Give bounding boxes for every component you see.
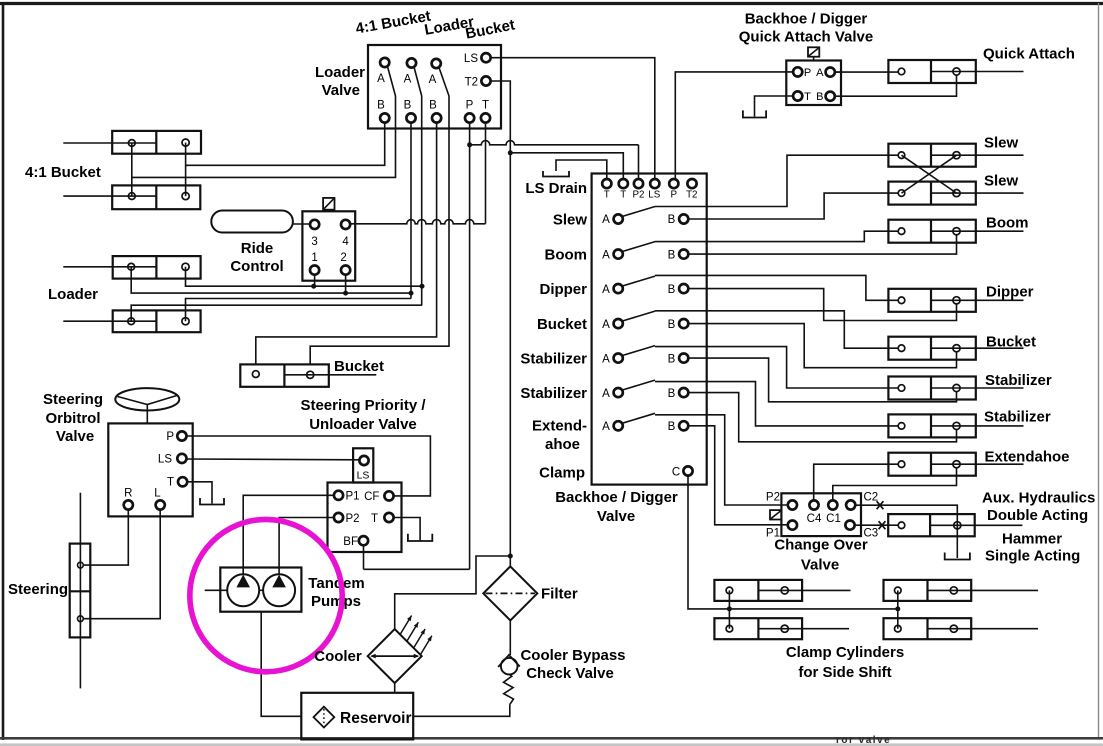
- svg-text:Hammer: Hammer: [1002, 531, 1062, 548]
- svg-text:Backhoe / Digger: Backhoe / Digger: [745, 11, 868, 28]
- svg-text:Single Acting: Single Acting: [985, 548, 1080, 565]
- svg-text:Valve: Valve: [322, 82, 360, 99]
- svg-text:P: P: [804, 67, 811, 79]
- svg-text:B: B: [377, 100, 385, 112]
- svg-text:A: A: [377, 73, 385, 85]
- svg-text:4: 4: [342, 236, 349, 248]
- svg-text:Steering: Steering: [43, 391, 103, 408]
- svg-text:B: B: [404, 100, 412, 112]
- svg-text:B: B: [668, 319, 676, 331]
- svg-text:Clamp Cylinders: Clamp Cylinders: [786, 644, 904, 661]
- svg-text:B: B: [668, 353, 676, 365]
- svg-text:Bucket: Bucket: [334, 358, 384, 375]
- svg-text:Stabilizer: Stabilizer: [984, 409, 1051, 426]
- svg-text:B: B: [668, 421, 676, 433]
- svg-text:B: B: [668, 284, 676, 296]
- svg-text:BF: BF: [343, 536, 358, 548]
- svg-text:Stabilizer: Stabilizer: [985, 372, 1052, 389]
- svg-text:Cooler: Cooler: [314, 648, 362, 665]
- svg-text:CF: CF: [364, 491, 379, 503]
- svg-text:B: B: [429, 100, 437, 112]
- svg-text:A: A: [404, 74, 412, 86]
- svg-text:3: 3: [311, 236, 317, 248]
- svg-text:Unloader Valve: Unloader Valve: [309, 416, 417, 433]
- svg-text:P: P: [466, 100, 474, 112]
- svg-text:Boom: Boom: [986, 215, 1029, 232]
- svg-text:T: T: [804, 91, 811, 103]
- svg-text:Valve: Valve: [597, 508, 635, 525]
- svg-text:Aux. Hydraulics: Aux. Hydraulics: [982, 490, 1095, 507]
- svg-text:C: C: [672, 467, 680, 479]
- svg-text:LS: LS: [464, 53, 478, 65]
- svg-text:LS: LS: [158, 454, 172, 466]
- svg-text:Dipper: Dipper: [539, 281, 587, 298]
- svg-text:Stabilizer: Stabilizer: [520, 385, 587, 402]
- svg-text:P2: P2: [633, 190, 645, 201]
- svg-text:4:1 Bucket: 4:1 Bucket: [25, 164, 101, 181]
- svg-text:P1: P1: [345, 491, 359, 503]
- svg-text:P2: P2: [345, 513, 359, 525]
- svg-text:B: B: [816, 91, 823, 103]
- svg-text:Orbitrol: Orbitrol: [46, 410, 101, 427]
- svg-text:ror valve: ror valve: [836, 735, 891, 746]
- svg-text:LS Drain: LS Drain: [525, 180, 587, 197]
- svg-text:Ride: Ride: [241, 240, 274, 257]
- svg-text:Tandem: Tandem: [308, 575, 364, 592]
- svg-text:Loader: Loader: [315, 64, 365, 81]
- svg-text:Steering: Steering: [8, 581, 68, 598]
- svg-text:A: A: [602, 249, 610, 261]
- svg-text:P: P: [671, 190, 678, 201]
- svg-text:R: R: [124, 488, 132, 500]
- svg-text:LS: LS: [648, 190, 660, 201]
- svg-text:Backhoe / Digger: Backhoe / Digger: [555, 489, 678, 506]
- svg-text:Quick Attach Valve: Quick Attach Valve: [739, 29, 874, 46]
- svg-text:T: T: [167, 477, 174, 489]
- svg-text:Slew: Slew: [553, 212, 588, 229]
- svg-text:A: A: [429, 74, 437, 86]
- svg-text:Stabilizer: Stabilizer: [520, 351, 587, 368]
- svg-text:Filter: Filter: [541, 586, 578, 603]
- svg-text:A: A: [602, 214, 610, 226]
- svg-text:Slew: Slew: [984, 173, 1019, 190]
- svg-text:Extend-: Extend-: [532, 418, 587, 435]
- svg-text:T: T: [604, 190, 610, 201]
- svg-text:B: B: [668, 249, 676, 261]
- svg-text:T: T: [620, 190, 626, 201]
- svg-text:A: A: [602, 284, 610, 296]
- svg-text:A: A: [602, 319, 610, 331]
- svg-text:Extendahoe: Extendahoe: [985, 449, 1070, 466]
- svg-text:Bucket: Bucket: [537, 316, 587, 333]
- svg-text:ahoe: ahoe: [545, 436, 580, 453]
- svg-text:Valve: Valve: [56, 428, 94, 445]
- svg-text:C1: C1: [826, 513, 841, 525]
- svg-text:A: A: [816, 67, 824, 79]
- svg-text:Pumps: Pumps: [311, 593, 361, 610]
- svg-text:P: P: [166, 431, 174, 443]
- svg-text:for Side Shift: for Side Shift: [798, 664, 891, 681]
- svg-text:C2: C2: [864, 492, 879, 504]
- svg-text:Bucket: Bucket: [986, 334, 1036, 351]
- svg-text:A: A: [602, 353, 610, 365]
- svg-text:Control: Control: [230, 258, 283, 275]
- svg-text:Double Acting: Double Acting: [987, 507, 1088, 524]
- svg-text:LS: LS: [357, 470, 370, 482]
- svg-text:Clamp: Clamp: [539, 465, 585, 482]
- svg-text:Cooler Bypass: Cooler Bypass: [520, 647, 625, 664]
- svg-text:Dipper: Dipper: [986, 284, 1034, 301]
- svg-text:B: B: [668, 388, 676, 400]
- svg-text:C4: C4: [807, 513, 822, 525]
- svg-text:1: 1: [311, 252, 317, 264]
- svg-text:A: A: [602, 388, 610, 400]
- svg-text:T2: T2: [465, 77, 478, 89]
- svg-text:Change Over: Change Over: [774, 537, 868, 554]
- svg-text:T2: T2: [686, 190, 697, 201]
- svg-text:Boom: Boom: [545, 247, 588, 264]
- svg-text:L: L: [154, 488, 161, 500]
- svg-text:Check Valve: Check Valve: [526, 665, 614, 682]
- svg-text:B: B: [668, 214, 676, 226]
- svg-text:Quick Attach: Quick Attach: [983, 46, 1075, 63]
- svg-text:A: A: [602, 421, 610, 433]
- svg-text:T: T: [371, 513, 378, 525]
- svg-text:2: 2: [340, 252, 346, 264]
- svg-text:T: T: [482, 100, 489, 112]
- svg-text:Steering Priority /: Steering Priority /: [300, 397, 426, 414]
- svg-text:Loader: Loader: [48, 286, 98, 303]
- svg-text:Reservoir: Reservoir: [340, 710, 412, 727]
- svg-text:Valve: Valve: [801, 557, 839, 574]
- svg-text:Slew: Slew: [984, 135, 1019, 152]
- svg-text:P2: P2: [766, 492, 780, 504]
